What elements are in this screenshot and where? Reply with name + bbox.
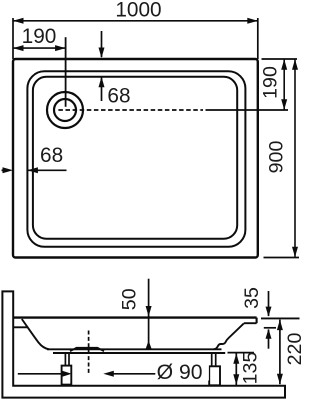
svg-text:190: 190 — [22, 25, 57, 48]
svg-text:220: 220 — [284, 333, 305, 366]
svg-text:1000: 1000 — [115, 0, 161, 21]
svg-text:900: 900 — [265, 141, 287, 174]
svg-text:35: 35 — [241, 287, 263, 309]
svg-text:135: 135 — [239, 352, 261, 385]
svg-text:Ø 90: Ø 90 — [157, 361, 203, 384]
svg-text:50: 50 — [119, 288, 141, 310]
svg-text:190: 190 — [260, 66, 282, 99]
svg-text:68: 68 — [40, 144, 63, 167]
svg-text:68: 68 — [107, 84, 130, 107]
